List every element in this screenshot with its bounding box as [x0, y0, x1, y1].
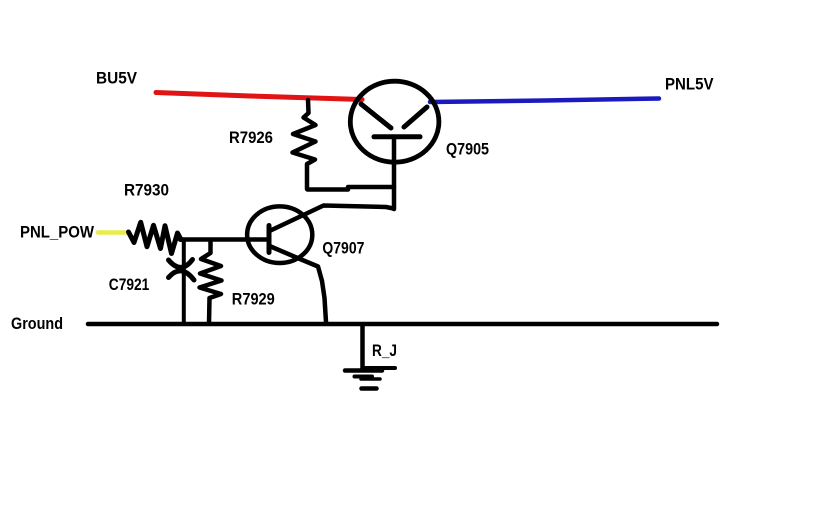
svg-text:R_J: R_J	[372, 341, 397, 360]
svg-text:R7930: R7930	[124, 180, 169, 199]
svg-text:Ground: Ground	[11, 314, 63, 333]
svg-text:Q7907: Q7907	[322, 238, 364, 257]
wire Q7905 base lead	[392, 138, 397, 209]
wire Q7907 emitter to ground	[270, 246, 327, 322]
svg-text:PNL5V: PNL5V	[665, 75, 714, 94]
wire R7926 bottom to Q7905 base	[308, 187, 395, 190]
wire R7930 to Q7907 base	[180, 237, 268, 242]
wire PNL_POW (yellow)	[98, 230, 128, 235]
resistor R7926	[293, 100, 316, 189]
transistor Q7907	[247, 206, 312, 263]
svg-text:Q7905: Q7905	[446, 140, 489, 159]
capacitor C7921	[169, 240, 195, 324]
wire Q7907 collector to Q7905 base	[270, 206, 394, 232]
resistor R7929	[200, 240, 222, 323]
wire BU5V (red)	[156, 93, 362, 100]
svg-text:PNL_POW: PNL_POW	[20, 223, 95, 242]
wire ground bus	[88, 322, 717, 327]
resistor R7930	[129, 222, 182, 253]
wire PNL5V (blue)	[430, 99, 659, 103]
svg-text:C7921: C7921	[109, 275, 150, 294]
ground symbol R_J	[345, 326, 395, 389]
svg-text:BU5V: BU5V	[96, 69, 138, 88]
transistor Q7905	[350, 81, 439, 162]
svg-text:R7929: R7929	[232, 289, 275, 308]
svg-text:R7926: R7926	[229, 128, 273, 147]
